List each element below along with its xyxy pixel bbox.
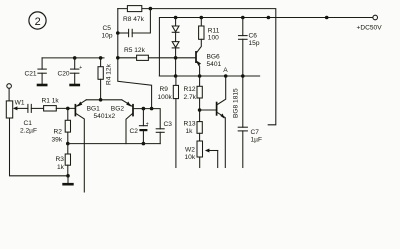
svg-text:R2: R2	[54, 128, 63, 135]
svg-text:10k: 10k	[185, 154, 196, 161]
capacitor C20	[73, 56, 77, 60]
svg-text:C2: C2	[130, 128, 139, 135]
ground C20	[69, 84, 80, 87]
svg-text:R4 12k: R4 12k	[106, 63, 113, 85]
wire C6 to node A	[242, 39, 244, 127]
svg-text:R3: R3	[56, 156, 65, 163]
node rail R11	[200, 16, 204, 20]
node R8 right / C5 junction	[149, 7, 153, 11]
capacitor C21	[41, 58, 43, 69]
resistor R11	[200, 18, 202, 27]
resistor R13	[197, 122, 202, 134]
transistor BG2	[94, 100, 152, 144]
terminal input jack	[7, 84, 12, 89]
node BG2 base	[150, 107, 154, 111]
resistor R1	[31, 107, 43, 109]
svg-text:5401: 5401	[207, 61, 222, 68]
wire bypass rail	[42, 57, 104, 59]
diode D1	[175, 18, 177, 27]
svg-text:39k: 39k	[52, 136, 63, 143]
svg-text:+DC50V: +DC50V	[357, 25, 383, 32]
svg-text:C5: C5	[103, 25, 112, 32]
svg-text:BG6: BG6	[207, 54, 221, 61]
node tail R4	[99, 98, 103, 102]
potentiometer W1	[6, 101, 12, 118]
svg-text:R11: R11	[208, 27, 220, 34]
svg-text:5401x2: 5401x2	[94, 113, 116, 120]
svg-text:BG2: BG2	[111, 106, 125, 113]
resistor R12	[199, 76, 201, 86]
capacitor C5	[118, 32, 129, 34]
figure number 2	[29, 12, 46, 29]
capacitor C2	[142, 107, 146, 111]
capacitor C6	[242, 18, 244, 36]
svg-text:2.2µF: 2.2µF	[20, 128, 37, 135]
wire W1 bottom to ground node	[10, 118, 69, 176]
resistor R5	[118, 57, 137, 59]
svg-text:W1: W1	[15, 99, 25, 106]
capacitor C1	[27, 104, 29, 112]
svg-text:R9: R9	[160, 86, 169, 93]
ground C21	[37, 84, 48, 87]
svg-text:W2: W2	[185, 147, 195, 154]
svg-text:100k: 100k	[158, 94, 173, 101]
wire feedback left vertical	[118, 9, 152, 109]
svg-text:+: +	[79, 65, 82, 71]
resistor R2	[67, 108, 69, 120]
potentiometer W2	[197, 141, 203, 157]
node BG1 base	[66, 107, 70, 111]
svg-text:1µF: 1µF	[251, 136, 263, 143]
svg-text:C6: C6	[249, 32, 258, 39]
svg-text:R12: R12	[184, 86, 196, 93]
transistor BG8	[200, 76, 240, 168]
svg-text:2: 2	[35, 16, 41, 28]
node rail C6	[241, 16, 245, 20]
svg-text:1k: 1k	[186, 128, 194, 135]
svg-text:R8 47k: R8 47k	[123, 16, 145, 23]
node BG6 emitter R12	[198, 74, 202, 78]
transistor BG6	[196, 39, 222, 76]
svg-text:C21: C21	[25, 71, 37, 78]
node rail BG11 drain	[325, 16, 329, 20]
node diode R9	[174, 74, 178, 78]
resistor R3	[67, 144, 69, 154]
resistor R4	[99, 56, 103, 60]
svg-text:1k: 1k	[57, 164, 65, 171]
capacitor C7	[238, 126, 247, 128]
svg-text:R13: R13	[184, 120, 196, 127]
node A wire	[159, 75, 259, 77]
svg-text:R1 1k: R1 1k	[42, 97, 60, 104]
svg-text:2.7k: 2.7k	[184, 94, 197, 101]
svg-text:C20: C20	[58, 71, 70, 78]
svg-text:C7: C7	[251, 129, 260, 136]
node rail BG9 collector	[267, 16, 271, 20]
wire +50V rail	[159, 18, 373, 77]
node R3 ground	[66, 174, 70, 178]
resistor R9	[175, 76, 177, 85]
svg-text:15p: 15p	[249, 40, 260, 47]
svg-text:R5 12k: R5 12k	[124, 47, 146, 54]
capacitor C3	[152, 109, 161, 129]
node rail diode chain	[174, 16, 178, 20]
terminal +DC50V	[373, 15, 378, 20]
svg-text:C3: C3	[164, 121, 173, 128]
node A junction	[224, 74, 228, 78]
wire diode chain to node	[175, 48, 177, 76]
svg-text:10p: 10p	[102, 33, 113, 40]
svg-text:C1: C1	[24, 120, 33, 127]
svg-text:BG1: BG1	[87, 106, 101, 113]
svg-text:100: 100	[208, 35, 219, 42]
svg-text:BG8 1815: BG8 1815	[233, 88, 240, 118]
svg-text:A: A	[223, 67, 228, 74]
resistor R8	[127, 6, 141, 12]
wire NFB	[68, 143, 160, 145]
diode D2	[175, 32, 177, 41]
node BG8 base	[198, 108, 202, 112]
wire top feedback line R8	[118, 9, 276, 125]
node NFB divider	[66, 142, 70, 146]
ground main	[67, 176, 69, 183]
wire emitter rail	[86, 99, 122, 101]
transistor BG1	[75, 100, 100, 192]
svg-text:+: +	[146, 121, 149, 127]
